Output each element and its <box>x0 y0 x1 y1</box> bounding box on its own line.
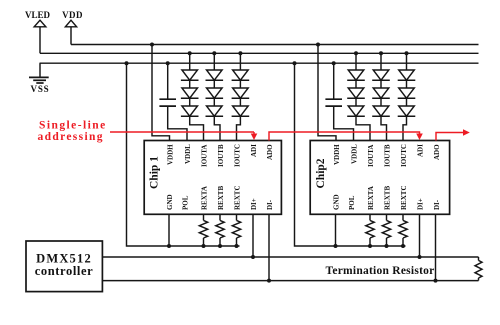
svg-text:ADO: ADO <box>266 144 274 160</box>
wire <box>380 80 382 88</box>
junction on VLED bus <box>354 51 358 55</box>
wire <box>355 80 357 88</box>
svg-text:REXTB: REXTB <box>217 186 225 210</box>
svg-text:POL: POL <box>181 195 189 210</box>
svg-text:Chip 1: Chip 1 <box>149 156 161 189</box>
svg-text:IOUTA: IOUTA <box>200 145 208 167</box>
LED string C1 cathode wire to pin <box>237 116 241 140</box>
svg-text:Termination Resistor: Termination Resistor <box>325 265 434 277</box>
LED C22 <box>398 88 416 98</box>
wire <box>189 98 191 106</box>
LED string A1 anode wire <box>189 53 191 70</box>
svg-text:IOUTC: IOUTC <box>400 144 408 167</box>
svg-text:VDDH: VDDH <box>166 144 174 165</box>
LED A22 <box>347 88 365 98</box>
svg-text:REXTC: REXTC <box>233 185 241 210</box>
DI- bus wire <box>102 280 478 282</box>
svg-text:Single-line: Single-line <box>39 119 107 131</box>
junction GND2 <box>334 244 338 248</box>
LED A23 <box>347 106 365 116</box>
wire <box>406 80 408 88</box>
wire <box>213 80 215 88</box>
VLED supply arrow <box>34 20 46 53</box>
svg-text:VSS: VSS <box>31 84 50 94</box>
svg-text:POL: POL <box>348 195 356 210</box>
LED C23 <box>398 106 416 116</box>
junction DI+1 <box>251 255 255 259</box>
LED string B1 anode wire <box>213 53 215 70</box>
VLED bus <box>40 52 479 54</box>
LED C13 <box>232 106 250 116</box>
junction on VLED bus <box>188 51 192 55</box>
LED string B1 cathode wire to pin <box>214 116 220 140</box>
LED string C2 cathode wire to pin <box>403 116 407 140</box>
junction VDD/chip1 <box>150 43 154 47</box>
svg-text:controller: controller <box>35 264 94 278</box>
resistor REXTC1 <box>232 214 240 248</box>
svg-text:VDDH: VDDH <box>333 144 341 165</box>
LED A11 <box>181 70 199 80</box>
resistor REXTB1 <box>216 214 224 248</box>
svg-text:DI+: DI+ <box>416 198 424 210</box>
red wire chip1 ADO to chip2 ADI <box>269 132 423 141</box>
wire <box>189 80 191 88</box>
svg-text:DI-: DI- <box>266 199 274 210</box>
wire C2 to chip2 VDDL <box>334 106 354 140</box>
svg-text:REXTA: REXTA <box>200 186 208 210</box>
svg-text:VDD: VDD <box>62 10 83 20</box>
LED string A2 anode wire <box>355 53 357 70</box>
LED string C2 anode wire <box>406 53 408 70</box>
junction on VLED bus <box>212 51 216 55</box>
wire VDD drop to chip2 VDDH <box>318 45 336 141</box>
svg-text:IOUTA: IOUTA <box>367 145 375 167</box>
svg-text:REXTA: REXTA <box>367 186 375 210</box>
junction VSS/chip1 gnd <box>125 61 129 65</box>
junction C2/VSS bus <box>332 61 336 65</box>
wire <box>213 98 215 106</box>
capacitor C2 <box>325 63 342 106</box>
LED string B2 cathode wire to pin <box>381 116 387 140</box>
svg-text:VDDL: VDDL <box>350 144 358 164</box>
svg-text:ADI: ADI <box>250 144 258 157</box>
svg-text:Chip2: Chip2 <box>315 158 327 188</box>
LED C21 <box>398 70 416 80</box>
wire VSS drop to chip2 ground bus <box>295 63 406 246</box>
junction DI-2 <box>434 279 438 283</box>
DMX512 controller box <box>26 241 102 292</box>
LED A12 <box>181 88 199 98</box>
LED B12 <box>206 88 224 98</box>
LED B22 <box>372 88 390 98</box>
junction on VLED bus <box>238 51 242 55</box>
junction on VLED bus <box>405 51 409 55</box>
junction C1/VSS bus <box>166 61 170 65</box>
svg-text:VDDL: VDDL <box>184 144 192 164</box>
junction DI+2 <box>418 255 422 259</box>
LED string B2 anode wire <box>380 53 382 70</box>
VSS bus <box>40 62 479 64</box>
LED string A2 cathode wire to pin <box>356 116 370 140</box>
ground VSS <box>29 63 49 83</box>
svg-text:DI-: DI- <box>433 199 441 210</box>
junction on VLED bus <box>379 51 383 55</box>
junction VSS/chip2 gnd <box>293 61 297 65</box>
capacitor C1 <box>159 63 176 106</box>
resistor REXTC2 <box>399 214 407 248</box>
LED B11 <box>206 70 224 80</box>
wire VSS drop to chip1 ground bus <box>127 63 240 246</box>
LED C11 <box>232 70 250 80</box>
LED A21 <box>347 70 365 80</box>
wire chip1 DI- <box>268 214 270 280</box>
svg-text:REXTC: REXTC <box>400 185 408 210</box>
svg-text:REXTB: REXTB <box>383 186 391 210</box>
svg-text:GND: GND <box>166 194 174 210</box>
VDD bus <box>71 44 479 46</box>
junction GND1 <box>167 244 171 248</box>
chip 2 body <box>310 141 449 215</box>
LED string A1 cathode wire to pin <box>190 116 204 140</box>
wire <box>239 80 241 88</box>
VDD supply arrow <box>65 20 76 44</box>
wire chip2 DI+ <box>419 214 421 257</box>
wire chip2 GND pin <box>335 214 337 246</box>
termination resistor <box>475 257 482 281</box>
wire C1 to chip1 VDDL <box>168 106 187 140</box>
wire chip2 DI- <box>435 214 437 280</box>
LED B21 <box>372 70 390 80</box>
red wire chip2 ADO out <box>436 129 470 140</box>
wire <box>355 98 357 106</box>
resistor REXTA1 <box>199 214 207 248</box>
wire chip1 GND pin <box>168 214 170 246</box>
svg-text:VLED: VLED <box>25 10 51 20</box>
LED C12 <box>232 88 250 98</box>
resistor REXTB2 <box>382 214 390 248</box>
junction VDD/chip2 <box>316 43 320 47</box>
junction DI-1 <box>267 279 271 283</box>
svg-text:ADO: ADO <box>433 144 441 160</box>
svg-text:IOUTB: IOUTB <box>383 144 391 167</box>
svg-text:IOUTC: IOUTC <box>233 144 241 167</box>
svg-text:IOUTB: IOUTB <box>217 144 225 167</box>
svg-text:addressing: addressing <box>38 131 104 143</box>
chip 1 body <box>144 141 281 215</box>
wire chip1 DI+ <box>252 214 254 257</box>
LED A13 <box>181 106 199 116</box>
svg-text:ADI: ADI <box>416 144 424 157</box>
wire VDD drop to chip1 VDDH <box>152 45 170 141</box>
wire <box>380 98 382 106</box>
svg-text:DI+: DI+ <box>250 198 258 210</box>
LED B23 <box>372 106 390 116</box>
wire <box>239 98 241 106</box>
single-line addressing red wire chip1 ADI <box>110 132 257 140</box>
DI+ bus wire <box>102 256 478 258</box>
wire <box>406 98 408 106</box>
resistor REXTA2 <box>366 214 374 248</box>
LED string C1 anode wire <box>239 53 241 70</box>
svg-text:GND: GND <box>332 194 340 210</box>
LED B13 <box>206 106 224 116</box>
